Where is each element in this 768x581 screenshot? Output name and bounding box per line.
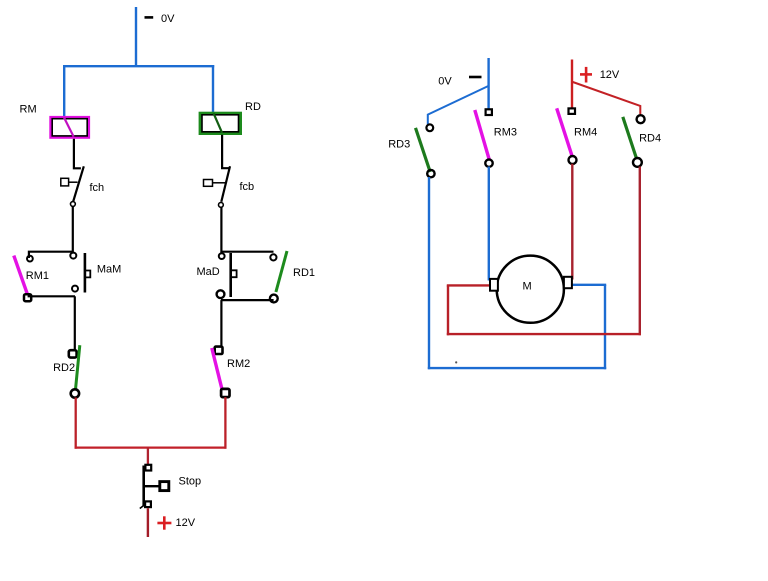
svg-text:MaM: MaM bbox=[97, 264, 121, 276]
wire 12V feed vertical (power circuit) bbox=[571, 60, 573, 108]
contact RM3 bbox=[475, 109, 493, 167]
svg-text:RD1: RD1 bbox=[293, 267, 315, 279]
wire blue right brush feed bbox=[572, 284, 606, 286]
wire blue RD3 to bottom rail bbox=[428, 177, 430, 369]
contact blade RD1 bbox=[276, 251, 287, 292]
wire MaD bottom rail bbox=[221, 299, 274, 301]
wire red bottom rail bbox=[447, 333, 641, 335]
contact blade RM1 bbox=[14, 256, 28, 295]
wire red Stop to +12V bbox=[147, 508, 149, 537]
node 0V polarity dash (power circuit) bbox=[469, 76, 482, 79]
motor M body bbox=[497, 256, 564, 323]
wire red diagonal to RD4 bbox=[573, 82, 641, 114]
wire drop to RM coil bbox=[63, 65, 65, 117]
relay coil RD bbox=[200, 113, 240, 133]
wire red RM2 to bottom rail bbox=[224, 397, 226, 449]
pushbutton MaD bbox=[217, 253, 278, 302]
wire MaM to RD2 bbox=[74, 296, 76, 350]
svg-text:MaD: MaD bbox=[197, 266, 220, 278]
wire red bottom rail bbox=[75, 446, 227, 448]
svg-text:12V: 12V bbox=[176, 517, 196, 529]
limit switch fcb bbox=[204, 166, 231, 207]
svg-text:RD3: RD3 bbox=[388, 138, 410, 150]
node +12V plus symbol (power circuit) bbox=[580, 67, 592, 83]
wire MaD top rail bbox=[221, 251, 273, 253]
svg-text:0V: 0V bbox=[438, 76, 452, 88]
node RM1 bottom terminal bbox=[24, 294, 31, 301]
svg-text:RM4: RM4 bbox=[574, 127, 597, 139]
wire red RM4 to right brush bbox=[571, 164, 573, 280]
svg-text:RD4: RD4 bbox=[639, 132, 661, 144]
wire top horizontal rail bbox=[63, 65, 214, 67]
contact RD2 bbox=[69, 345, 80, 397]
contact RM4 bbox=[557, 108, 577, 164]
wire red RD4 to bottom rail bbox=[639, 167, 641, 336]
wire RD coil to fcb bbox=[222, 135, 230, 168]
svg-text:RM1: RM1 bbox=[26, 270, 49, 282]
svg-text:RM2: RM2 bbox=[227, 358, 250, 370]
wire blue diagonal to RD3 bbox=[428, 86, 489, 124]
wire fch to MaM rail bbox=[72, 207, 74, 253]
pushbutton Stop (NC) bbox=[140, 465, 169, 509]
svg-text:0V: 0V bbox=[161, 13, 175, 25]
wire 0V feed vertical (power circuit) bbox=[487, 58, 489, 109]
svg-text:Stop: Stop bbox=[179, 475, 202, 487]
contact RD3 bbox=[416, 124, 435, 177]
svg-text:fch: fch bbox=[90, 182, 105, 194]
wire blue bottom rail bbox=[428, 367, 606, 369]
wire red RD2 to bottom rail bbox=[75, 398, 77, 449]
svg-text:RD2: RD2 bbox=[53, 362, 75, 374]
wire MaM top rail bbox=[29, 252, 73, 258]
svg-text:RM: RM bbox=[20, 103, 37, 115]
motor right brush bbox=[564, 277, 572, 288]
wire blue RM3 to left brush bbox=[488, 167, 490, 281]
contact RD4 bbox=[623, 115, 645, 167]
svg-text:RD: RD bbox=[245, 101, 261, 113]
svg-text:RM3: RM3 bbox=[494, 127, 517, 139]
relay coil RM bbox=[51, 117, 89, 137]
pushbutton MaM bbox=[70, 253, 90, 293]
node RM1 top terminal bbox=[27, 256, 33, 262]
wire red drop to Stop bbox=[147, 448, 149, 465]
wire drop to RD coil bbox=[212, 65, 214, 113]
wire red left brush feed bbox=[447, 284, 490, 286]
stray dot bbox=[455, 361, 457, 363]
wire blue right riser bbox=[604, 285, 606, 370]
svg-text:fcb: fcb bbox=[240, 181, 255, 193]
wire RM coil to fch bbox=[74, 139, 81, 169]
limit switch fch bbox=[61, 166, 84, 206]
node +12V plus symbol bbox=[157, 516, 171, 529]
svg-text:12V: 12V bbox=[600, 69, 620, 81]
wire 0V feed vertical (left circuit) bbox=[135, 7, 137, 67]
node 0V polarity dash bbox=[145, 16, 154, 19]
motor left brush bbox=[490, 279, 498, 291]
wire red left riser bbox=[447, 285, 449, 335]
wire MaD to RM2 bbox=[220, 300, 222, 346]
contact RM2 bbox=[212, 347, 230, 398]
wire fcb to MaD rail bbox=[220, 207, 222, 253]
svg-text:M: M bbox=[523, 280, 532, 292]
wire MaM bottom rail bbox=[28, 295, 75, 297]
